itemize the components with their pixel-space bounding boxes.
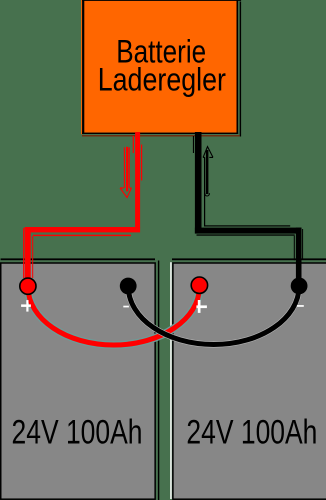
battery B1 (left, gray box) [1, 263, 155, 499]
wire red echo under horizontal [33, 235, 131, 236]
wire red echo right [141, 145, 142, 181]
divider black line right of battery B1 [158, 261, 159, 500]
label plus B2 (white) [196, 305, 207, 308]
label minus B2 (white) [297, 305, 304, 307]
offset outline top of battery B2 [172, 258, 326, 260]
offset outline top of battery B1 [1, 258, 155, 260]
box border top (cut off) [82, 0, 241, 2]
terminal B1 plus (red) [20, 278, 36, 294]
shadow line under charger box [82, 135, 240, 137]
jumper arc red halo (teal fringe) [28, 287, 199, 345]
terminal B2 minus (black) [291, 278, 308, 295]
charger box U1 (orange fill) [84, 0, 237, 133]
wire red echo right of vertical [32, 236, 33, 278]
arrow red head outline [120, 188, 132, 198]
wire black echo left short [193, 136, 194, 153]
wire black horizontal [195, 228, 302, 234]
svg-text:24V 100Ah: 24V 100Ah [186, 414, 317, 452]
wire black vertical from charger [195, 132, 202, 234]
box shadow line right [240, 2, 241, 137]
wire red echo left of vertical [23, 228, 24, 278]
wire black echo left of vertical [294, 236, 295, 261]
arrow red (down): outline lines [124, 147, 129, 187]
jumper arc black B1- to B2- (over red) [128, 286, 299, 345]
wire red vertical from charger [135, 132, 140, 228]
wire black echo below horizontal [197, 234, 295, 235]
arrow black shaft bottom cap [205, 193, 210, 196]
terminal B1 minus (black) [120, 278, 137, 295]
arrow black head outline [203, 147, 213, 158]
orange fringe left of box [81, 0, 82, 134]
wire red horizontal [25, 227, 141, 232]
wire black vertical to B2 minus [296, 228, 302, 279]
white stripe left of battery B2 [170, 262, 172, 499]
box border bottom [82, 133, 238, 134]
wire black echo right of vertical [302, 229, 303, 260]
jumper arc red B1+ to B2+ [28, 287, 199, 345]
svg-text:24V 100Ah: 24V 100Ah [12, 414, 143, 452]
arrow red shaft (thick middle) [126, 147, 128, 192]
wire black echo above horizontal [204, 225, 290, 226]
battery B2 (right, gray box) [173, 263, 326, 499]
terminal B2 plus (red) [191, 277, 207, 293]
arrow black shaft (thick middle) [206, 150, 209, 194]
label minus B1 (white) [123, 306, 129, 308]
box border left [82, 0, 84, 134]
label plus B1 (white) [21, 304, 31, 307]
jumper arc black halo (light fringe) [128, 286, 299, 345]
wire red echo left short [133, 136, 134, 153]
arrow black (up): left outline line continuing to elbow echo [204, 157, 206, 226]
svg-text:Laderegler: Laderegler [98, 61, 227, 97]
box border right [237, 0, 239, 134]
wire red vertical to B1 plus [25, 227, 31, 280]
